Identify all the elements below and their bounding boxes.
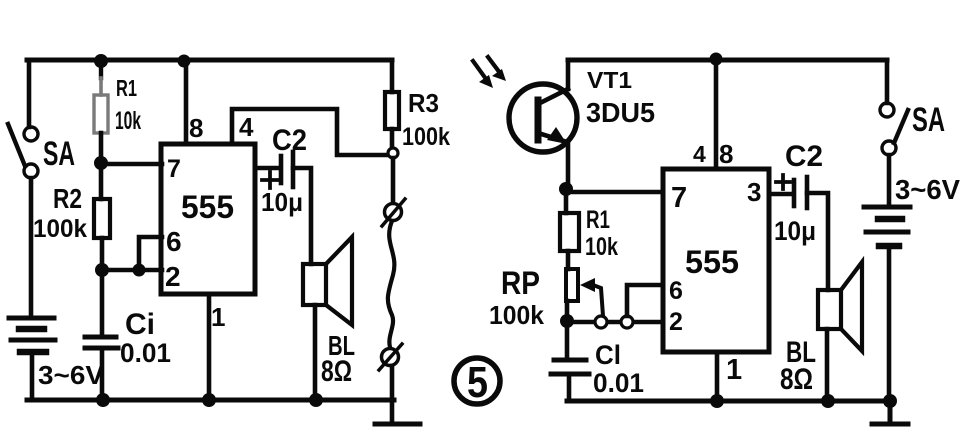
capacitor C1 0.01 (right) (551, 340, 644, 398)
wire pin 3 to C2 (255, 166, 278, 171)
svg-text:100k: 100k (402, 123, 450, 151)
svg-text:3DU5: 3DU5 (586, 97, 655, 128)
svg-text:4: 4 (239, 112, 254, 142)
svg-text:0.01: 0.01 (120, 338, 171, 368)
wire pins 4/8 to rail (714, 60, 719, 169)
wire node to C1 right (565, 322, 570, 357)
probe terminal 1 (382, 199, 405, 226)
svg-text:2: 2 (165, 261, 181, 292)
node speaker bottom rail right (821, 394, 835, 408)
svg-text:8: 8 (189, 113, 203, 143)
svg-text:555: 555 (685, 244, 739, 280)
wire top rail right circuit (568, 58, 887, 63)
wire left drop to switch (27, 60, 32, 127)
node ring R3 / pin4 / probe (388, 148, 398, 158)
wire pin 7 (101, 162, 162, 167)
svg-text:C2: C2 (785, 140, 823, 173)
wire pin 3 to C2 right (769, 192, 792, 197)
resistor R3 100k (385, 60, 450, 151)
wire battery to bottom rail right (887, 248, 892, 400)
wire RP to node (565, 301, 570, 316)
svg-text:RP: RP (501, 265, 540, 301)
speaker BL 8ohm (right) (780, 262, 862, 400)
wire pin 2 run right (567, 320, 663, 325)
wire battery to bottom rail (30, 352, 35, 398)
resistor R1 10k (left, faded) (94, 66, 141, 161)
svg-text:R1: R1 (586, 206, 610, 234)
svg-text:Cl: Cl (595, 340, 621, 370)
svg-text:Ci: Ci (125, 308, 155, 341)
svg-text:6: 6 (166, 226, 182, 257)
svg-text:3~6V: 3~6V (38, 360, 105, 390)
wire C2 to speaker right (807, 193, 828, 290)
wire pin 2 run (102, 268, 162, 273)
svg-text:C2: C2 (272, 124, 307, 157)
light arrows into VT1 (473, 57, 506, 88)
node RP / C1 / pin2 (560, 314, 574, 328)
svg-text:8Ω: 8Ω (321, 355, 352, 388)
svg-text:3: 3 (747, 177, 761, 207)
probe terminal 2 (379, 344, 402, 370)
capacitor C2 10u (right) (774, 140, 823, 246)
op-amp U2 555 timer (right) (663, 139, 769, 386)
svg-text:R3: R3 (408, 88, 439, 118)
node pin1 bottom rail (202, 393, 216, 407)
wire pin 7 right (566, 190, 663, 195)
wire pin 6 branch right (627, 285, 663, 316)
svg-text:7: 7 (671, 182, 687, 214)
figure number 5 (454, 358, 500, 407)
wire bottom rail left circuit (27, 398, 394, 403)
node R1/R2/pin7 (94, 156, 108, 170)
wire top rail left circuit (27, 58, 392, 63)
wire probe 2 to terminal bar (390, 366, 395, 421)
resistor R2 100k (33, 163, 110, 270)
wire emitter down (566, 143, 571, 186)
node top rail / pin 8 (178, 55, 191, 68)
svg-text:6: 6 (669, 277, 683, 305)
switch SA (left circuit) (8, 124, 75, 178)
svg-text:R1: R1 (116, 75, 137, 101)
svg-text:7: 7 (167, 155, 181, 183)
wire pin 1 to rail (207, 294, 212, 400)
wire node to C1 (100, 270, 105, 333)
node speaker bottom rail (309, 393, 323, 407)
wire switch to battery (29, 178, 34, 317)
svg-text:8Ω: 8Ω (780, 363, 813, 396)
svg-text:555: 555 (181, 189, 234, 225)
svg-text:SA: SA (43, 135, 75, 173)
wire switch to battery right (887, 155, 892, 204)
node pin6 branch (133, 264, 146, 277)
wire flexible probe lead (388, 221, 395, 347)
switch SA (right circuit) (880, 101, 945, 155)
svg-text:SA: SA (912, 101, 945, 139)
capacitor C1 0.01 (left) (85, 308, 171, 368)
resistor R1 10k (right) (560, 189, 618, 269)
svg-text:10μ: 10μ (774, 216, 816, 246)
svg-text:8: 8 (719, 139, 733, 169)
svg-text:10k: 10k (115, 107, 141, 135)
battery GB1 3~6V (9, 318, 105, 390)
phototransistor VT1 3DU5 (509, 67, 655, 152)
node emitter / R1 / pin7 (559, 182, 573, 196)
svg-text:100k: 100k (489, 300, 545, 330)
wire to probe 1 (391, 158, 396, 204)
svg-text:0.01: 0.01 (593, 368, 644, 398)
svg-text:1: 1 (211, 302, 225, 332)
wire pin 1 to rail right (715, 352, 720, 400)
ring terminal pin6 branch (621, 316, 633, 328)
wire pin 4 to R3 node (232, 109, 389, 155)
node C1 bottom rail (96, 393, 110, 407)
svg-text:R2: R2 (53, 183, 82, 214)
svg-text:3~6V: 3~6V (895, 174, 960, 205)
terminal bar (left circuit) (375, 422, 420, 427)
speaker BL 8ohm (left) (303, 237, 355, 400)
node rail right corner (883, 394, 897, 408)
ring terminal wiper (595, 316, 607, 328)
svg-text:4: 4 (693, 141, 706, 167)
node R2/C1/pin2 (95, 263, 109, 277)
wire pin 8 (184, 61, 189, 144)
wire pin 6 branch (139, 237, 162, 270)
terminal bar (right circuit) (872, 401, 908, 424)
wire collector to rail (566, 60, 571, 89)
node top rail pin 4/8 (710, 53, 723, 66)
wire bottom rail right circuit (567, 399, 890, 404)
svg-text:100k: 100k (33, 215, 87, 243)
wire C2 to speaker (293, 168, 311, 264)
capacitor C2 10u (left) (261, 124, 307, 217)
svg-text:1: 1 (726, 354, 742, 386)
svg-text:5: 5 (467, 358, 488, 407)
wire rail right drop (885, 60, 890, 103)
svg-text:2: 2 (669, 308, 683, 336)
op-amp U1 555 timer (left) (161, 112, 255, 332)
svg-text:10μ: 10μ (261, 187, 303, 217)
svg-text:10k: 10k (585, 233, 618, 261)
node pin1 bottom rail right (710, 394, 724, 408)
battery GB2 3~6V (864, 174, 960, 246)
wire C1 to rail right (567, 374, 572, 401)
svg-text:VT1: VT1 (587, 67, 632, 93)
node top rail / R1 (94, 54, 108, 68)
wire C1 to rail (100, 348, 105, 400)
potentiometer RP 100k (489, 265, 603, 330)
